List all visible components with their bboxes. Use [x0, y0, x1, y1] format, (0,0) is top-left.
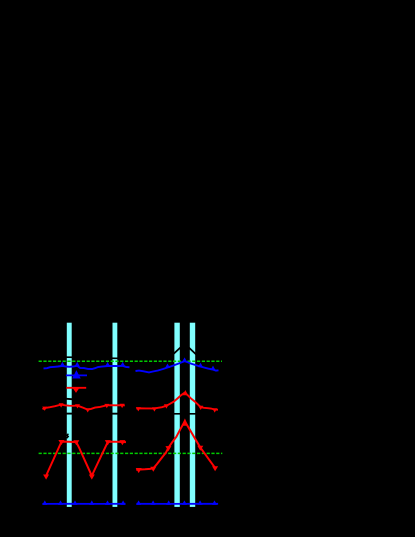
- cyan band 1 (left channel window a): [67, 323, 72, 507]
- red row3 left markers: [43, 440, 125, 480]
- red row2 right apex marker: [183, 390, 188, 395]
- blue row1 right markers: [165, 357, 216, 370]
- red limit symbol: horizontal bar: [66, 387, 86, 389]
- blue row4 right markers: [136, 500, 217, 505]
- blue row4 left markers: [42, 500, 125, 505]
- red spectrum row3 left: [46, 442, 126, 476]
- red spectrum row2 right: [136, 393, 218, 410]
- blue upper-limit symbol: big triangle: [72, 370, 81, 378]
- red spectrum row2 left: [43, 405, 125, 410]
- green dashed baseline 1: [39, 360, 222, 362]
- red row3 right markers: [136, 446, 218, 473]
- black squiggle feature on band 1 edge: [67, 434, 69, 438]
- black spectrum row1 left (flat baseline, visible over bands): [44, 357, 130, 358]
- blue spectrum row1 right: [136, 361, 219, 372]
- red row2 right markers: [136, 404, 217, 412]
- red spectrum row3 right: [136, 421, 215, 469]
- green dashed baseline 2: [39, 452, 223, 454]
- blue spectrum row4 right (baseline): [136, 503, 218, 505]
- blue spectrum row4 left (baseline): [42, 503, 125, 505]
- blue spectrum row1 left: [44, 366, 130, 369]
- cyan band 3 (right channel window a): [174, 323, 179, 507]
- red row2 left markers: [42, 403, 124, 412]
- cyan band 4 (right channel window b): [190, 323, 195, 507]
- black spectrum row2 segment over band 1: [62, 398, 75, 399]
- red limit symbol: down triangle: [73, 388, 80, 393]
- black spectrum row1 right (peaked profile, visible over bands): [136, 344, 218, 358]
- blue row1 left markers: [60, 362, 125, 367]
- cyan band 2 (left channel window b): [113, 323, 118, 507]
- black spectrum row3 baseline (visible over bands): [43, 413, 218, 415]
- blue upper-limit symbol: horizontal bar: [66, 374, 87, 376]
- red row3 right apex arrow marker: [182, 418, 189, 425]
